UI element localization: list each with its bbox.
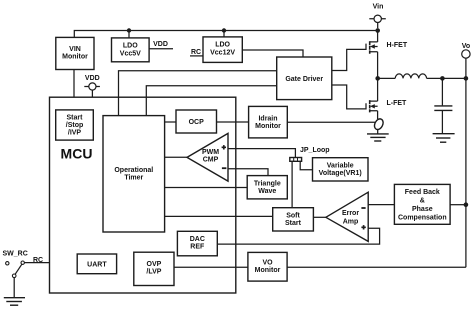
capacitor C1 (434, 78, 452, 133)
svg-text:Start: Start (285, 220, 302, 227)
wire Error Amp minus to Feed Back block (368, 204, 394, 206)
wire OCP to Idrain Monitor (217, 121, 249, 123)
svg-text:Feed Back: Feed Back (405, 189, 440, 196)
block Feed Back & Phase Compensation (394, 184, 450, 224)
wire Operational Timer to OCP (165, 121, 176, 123)
svg-text:SW_RC: SW_RC (3, 251, 28, 258)
wire switch to MCU (24, 262, 49, 264)
svg-text:LDO: LDO (215, 42, 230, 49)
svg-text:Timer: Timer (124, 174, 143, 181)
svg-text:OVP: OVP (147, 261, 162, 268)
svg-text:/LVP: /LVP (146, 269, 161, 276)
block Soft Start (273, 208, 314, 231)
svg-text:Soft: Soft (286, 212, 300, 219)
block Idrain Monitor (249, 106, 288, 137)
svg-text:DAC: DAC (190, 236, 205, 243)
svg-text:Operational: Operational (114, 167, 153, 174)
wire top Vin rail (74, 31, 377, 38)
block Gate Driver (277, 57, 332, 100)
wire VO Monitor to Vo rail (287, 266, 466, 268)
block LDO Vcc5V (112, 38, 150, 62)
svg-text:VDD: VDD (85, 75, 100, 82)
wire Gate Driver to L-FET gate (332, 85, 366, 109)
block Triangle Wave (247, 176, 287, 199)
svg-text:Vcc5V: Vcc5V (120, 50, 141, 57)
wire Operational Timer to PWM CMP output (165, 156, 187, 158)
inductor L1 (395, 74, 426, 78)
svg-text:Phase: Phase (412, 206, 433, 213)
wire Operational Timer to Gate Driver lower (146, 86, 276, 116)
svg-text:/Stop: /Stop (66, 122, 84, 129)
svg-text:UART: UART (87, 261, 107, 268)
pin minus of Error Amp (361, 207, 365, 209)
wire jumper to Variable Voltage (300, 161, 312, 169)
svg-text:/IVP: /IVP (68, 130, 82, 137)
svg-text:Variable: Variable (327, 162, 354, 169)
svg-text:LDO: LDO (123, 42, 138, 49)
svg-text:Vin: Vin (373, 4, 384, 11)
ground below switch (4, 298, 25, 306)
svg-text:CMP: CMP (203, 157, 219, 164)
wire jumper to Soft Start (291, 161, 293, 207)
svg-text:RC: RC (191, 49, 201, 56)
block VO Monitor (248, 252, 287, 281)
svg-text:VO: VO (262, 260, 273, 267)
wire Gate Driver to H-FET gate (332, 44, 366, 71)
wire probe to ground (377, 130, 379, 134)
wire Operational Timer to Gate Driver upper (119, 71, 277, 116)
switch SW_RC (6, 261, 25, 278)
wire Idrain Monitor to current probe (287, 121, 375, 123)
jumper JP_Loop (290, 158, 302, 162)
node dot above LDO Vcc12V (222, 28, 226, 37)
node dot switch node (375, 76, 380, 81)
ground below capacitor (433, 134, 455, 143)
node dot Vin junction (375, 28, 380, 33)
wire Feed Back block to Vo rail (450, 204, 466, 206)
block Variable Voltage(VR1) (313, 158, 369, 181)
svg-text:Idrain: Idrain (258, 115, 277, 122)
transistor L-FET (370, 100, 378, 119)
svg-text:Error: Error (342, 210, 359, 217)
wire inductor to Vo node (427, 77, 466, 79)
ground below L-FET (367, 134, 389, 141)
svg-text:REF: REF (190, 244, 205, 251)
svg-text:Vo: Vo (462, 43, 470, 50)
wire Soft Start to Error Amp output (313, 216, 325, 218)
wire Error Amp plus to DAC REF (217, 228, 379, 244)
node dot Vo junction (464, 76, 469, 81)
wire OVP/LVP to VO Monitor (174, 266, 248, 268)
svg-text:PWM: PWM (202, 149, 219, 156)
pin minus of PWM CMP (222, 167, 227, 169)
node dot above LDO Vcc5V (127, 28, 131, 38)
svg-text:Voltage(VR1): Voltage(VR1) (319, 170, 362, 177)
node dot capacitor tap (440, 76, 445, 81)
label RC pin of LDO Vcc12V (190, 49, 203, 56)
svg-text:Start: Start (67, 115, 84, 122)
wire Vo rail down to VO Monitor (465, 78, 467, 267)
svg-text:Amp: Amp (343, 219, 359, 226)
svg-text:Triangle: Triangle (254, 180, 281, 187)
svg-text:Wave: Wave (258, 188, 276, 195)
op-amp PWM CMP (187, 133, 228, 181)
terminal Vo (462, 43, 471, 78)
svg-text:Monitor: Monitor (255, 123, 281, 130)
node dot Feed Back Vo rail (464, 202, 469, 207)
wire VIN Monitor to Start/Stop (73, 70, 75, 110)
svg-text:JP_Loop: JP_Loop (300, 147, 330, 154)
block DAC REF (177, 231, 217, 256)
block Start/Stop/IVP (56, 110, 94, 140)
op-amp Error Amp (326, 192, 368, 241)
svg-text:MCU: MCU (61, 146, 93, 162)
wire PWM CMP minus input to Triangle Wave (228, 169, 268, 176)
wire switch to ground (13, 278, 15, 298)
block MCU outline (50, 97, 236, 293)
svg-text:VIN: VIN (69, 46, 81, 53)
svg-text:Monitor: Monitor (62, 54, 88, 61)
block OCP (176, 110, 217, 133)
wire Operational Timer to Soft Start (165, 215, 273, 217)
svg-text:&: & (420, 197, 425, 204)
transistor H-FET (370, 31, 378, 54)
wire Operational Timer to Triangle Wave (165, 187, 248, 189)
terminal VDD on MCU (84, 75, 100, 97)
svg-text:Monitor: Monitor (255, 267, 281, 274)
svg-text:VDD: VDD (153, 41, 168, 48)
wire H-FET source to L-FET drain (377, 52, 379, 101)
svg-text:H-FET: H-FET (387, 42, 408, 49)
current probe loop (373, 117, 385, 131)
block OVP/LVP (134, 252, 174, 285)
wire switch node to inductor (378, 77, 396, 79)
svg-text:L-FET: L-FET (387, 100, 408, 107)
wire PWM CMP plus input to jumper (228, 149, 295, 158)
label VDD pin of LDO Vcc5V (149, 41, 173, 49)
block LDO Vcc12V (203, 37, 242, 63)
svg-text:OCP: OCP (189, 119, 205, 126)
wire LDO Vcc12V to Gate Driver (242, 50, 303, 57)
svg-text:Compensation: Compensation (398, 214, 447, 221)
block Operational Timer (103, 116, 165, 232)
svg-text:Vcc12V: Vcc12V (210, 50, 235, 57)
pin plus of PWM CMP (222, 145, 226, 149)
svg-text:Gate Driver: Gate Driver (285, 76, 323, 83)
pin plus of Error Amp (361, 225, 365, 229)
block UART (77, 254, 116, 274)
block VIN Monitor (56, 37, 94, 69)
terminal Vin (369, 4, 386, 29)
